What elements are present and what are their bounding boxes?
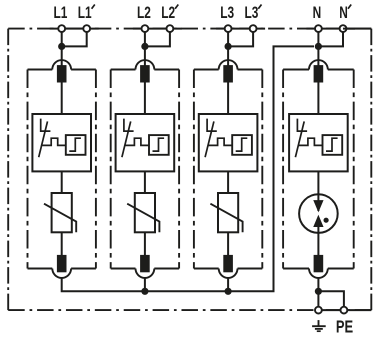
module outline (L2 protection path, dashed) bbox=[111, 60, 179, 278]
terminal L2 bbox=[142, 25, 149, 32]
wire varistor L2 to lower disconnect bbox=[144, 232, 146, 255]
svg-text:PE: PE bbox=[336, 317, 353, 336]
wire between PE terminals and to border bbox=[318, 309, 371, 311]
disconnect element bottom L1 (filled) bbox=[57, 255, 67, 272]
svg-text:L3: L3 bbox=[245, 4, 259, 23]
trip pulse link L1 bbox=[42, 138, 66, 145]
switch contact lead L2 bbox=[124, 119, 134, 132]
trip device box L2 bbox=[149, 135, 169, 155]
svg-text:L3: L3 bbox=[220, 4, 234, 23]
step symbol in trip device L3 bbox=[236, 138, 248, 151]
ground symbol bbox=[312, 320, 326, 331]
switch contact lead L3 bbox=[207, 119, 217, 132]
wire disconnector to varistor L1 bbox=[61, 171, 63, 193]
wire into spark gap top bbox=[317, 194, 319, 211]
wire varistor L3 to lower disconnect bbox=[227, 232, 229, 255]
junction node L3 bbox=[225, 43, 232, 50]
trip pulse link L3 bbox=[209, 138, 233, 145]
terminal L1′ bbox=[83, 25, 90, 32]
wire junction N into branch bbox=[317, 46, 319, 67]
wire into disconnector box L1 bbox=[61, 82, 63, 114]
wire terminal L2′ down and left to junction bbox=[145, 29, 170, 47]
terminal N′ bbox=[340, 25, 347, 32]
wire L3 branch bottom to bus bbox=[227, 278, 229, 291]
wire into disconnector box N bbox=[317, 82, 319, 114]
terminal L1 bbox=[58, 25, 65, 32]
wire spark gap bottom to PE node bbox=[317, 278, 319, 307]
disconnector monitoring box N bbox=[289, 114, 348, 171]
wire bus: varistor bottoms to N node (riser) bbox=[62, 46, 314, 291]
wire junction L2 into branch bbox=[144, 46, 146, 67]
switch blade L2 bbox=[122, 121, 131, 157]
wire PE node to PE prime terminal bbox=[318, 291, 344, 306]
varistor L1 diagonal bbox=[44, 204, 76, 233]
module outline (N protection path, dashed) bbox=[283, 60, 354, 278]
switch contact lead N bbox=[297, 119, 307, 132]
wire junction L3 into branch bbox=[227, 46, 229, 67]
svg-text:L2: L2 bbox=[161, 4, 175, 23]
disconnect element bottom L3 (filled) bbox=[223, 255, 233, 272]
terminal L2′ bbox=[167, 25, 174, 32]
spark gap trigger dot bbox=[324, 218, 329, 223]
wire into disconnector box L3 bbox=[227, 82, 229, 114]
varistor L3 body bbox=[218, 193, 238, 232]
wire terminal N down to junction bbox=[317, 29, 319, 47]
svg-text:L2: L2 bbox=[137, 4, 151, 23]
wire terminal L1′ down and left to junction bbox=[62, 29, 87, 47]
disconnector monitoring box L2 bbox=[116, 114, 175, 171]
disconnector monitoring box L3 bbox=[199, 114, 258, 171]
switch blade L1 bbox=[39, 121, 48, 157]
step symbol in trip device L2 bbox=[153, 138, 165, 151]
varistor L2 diagonal bbox=[127, 204, 159, 233]
wire terminal L3 to terminal L3′ bbox=[216, 28, 265, 30]
enclosure border bottom (dash-dot) bbox=[8, 309, 371, 311]
junction node L1 bbox=[58, 43, 65, 50]
wire junction L1 into branch bbox=[61, 46, 63, 67]
svg-text:L1: L1 bbox=[78, 4, 92, 23]
terminal PE (earth side) bbox=[315, 307, 322, 314]
varistor L1 body bbox=[52, 193, 72, 232]
terminal N bbox=[315, 25, 322, 32]
disconnect element top L2 (filled) bbox=[140, 65, 150, 82]
spark gap N-PE circle bbox=[299, 194, 338, 233]
enclosure border right (dash-dot) bbox=[370, 29, 372, 311]
wire disconnector to varistor L2 bbox=[144, 171, 146, 193]
junction node bus L3 bbox=[225, 288, 232, 295]
switch blade N bbox=[295, 121, 304, 157]
svg-text:N: N bbox=[339, 4, 348, 23]
wire terminal L1 down to junction bbox=[61, 29, 63, 47]
terminal L3 bbox=[225, 25, 232, 32]
wire terminal N′ down and left to junction bbox=[318, 29, 343, 47]
step symbol in trip device N bbox=[326, 138, 338, 151]
enclosure border top (dash-dot) bbox=[8, 28, 371, 30]
wire disconnector to spark gap N bbox=[317, 171, 319, 211]
junction node N bbox=[315, 43, 322, 50]
spark gap lower electrode (triangle up) bbox=[314, 216, 323, 227]
wire/border solid from N prime terminal to top-right corner bbox=[343, 28, 371, 30]
disconnect element top L3 (filled) bbox=[223, 65, 233, 82]
wire disconnector to varistor L3 bbox=[227, 171, 229, 193]
trip device box L1 bbox=[66, 135, 86, 155]
junction node PE bbox=[315, 288, 322, 295]
wire terminal L3′ down and left to junction bbox=[228, 29, 253, 47]
wire terminal L2 to terminal L2′ bbox=[133, 28, 182, 30]
varistor L2 body bbox=[135, 193, 155, 232]
wire into disconnector box L2 bbox=[144, 82, 146, 114]
disconnect element top L1 (filled) bbox=[57, 65, 67, 82]
module outline (L3 protection path, dashed) bbox=[194, 60, 262, 278]
wire terminal L1 to terminal L1′ bbox=[50, 28, 99, 30]
disconnector monitoring box L1 bbox=[32, 114, 91, 171]
trip device box L3 bbox=[232, 135, 252, 155]
terminal PE bbox=[341, 307, 348, 314]
step symbol in trip device L1 bbox=[69, 138, 81, 151]
disconnect element top N (filled) bbox=[314, 65, 324, 82]
wire terminal L2 down to junction bbox=[144, 29, 146, 47]
switch contact lead L1 bbox=[41, 119, 51, 132]
wire L2 branch bottom to bus bbox=[144, 278, 146, 291]
trip device box N bbox=[323, 135, 343, 155]
junction node bus L2 bbox=[141, 288, 148, 295]
disconnect element bottom N (filled) bbox=[314, 255, 324, 272]
varistor L3 diagonal bbox=[210, 204, 242, 233]
terminal L3′ bbox=[250, 25, 257, 32]
wire varistor L1 to lower disconnect bbox=[61, 232, 63, 255]
enclosure border left (dash-dot) bbox=[7, 29, 9, 311]
disconnect element bottom L2 (filled) bbox=[140, 255, 150, 272]
svg-text:L1: L1 bbox=[54, 4, 68, 23]
switch blade L3 bbox=[205, 121, 214, 157]
trip pulse link N bbox=[299, 138, 323, 145]
svg-text:N: N bbox=[313, 4, 322, 23]
wire terminal L3 down to junction bbox=[227, 29, 229, 47]
module outline (L1 protection path, dashed) bbox=[28, 60, 96, 278]
spark gap upper electrode (triangle down) bbox=[314, 201, 323, 212]
junction node L2 bbox=[141, 43, 148, 50]
trip pulse link L2 bbox=[125, 138, 149, 145]
wire terminal N to terminal N′ bbox=[306, 28, 355, 30]
wire out of spark gap bottom bbox=[317, 227, 319, 256]
